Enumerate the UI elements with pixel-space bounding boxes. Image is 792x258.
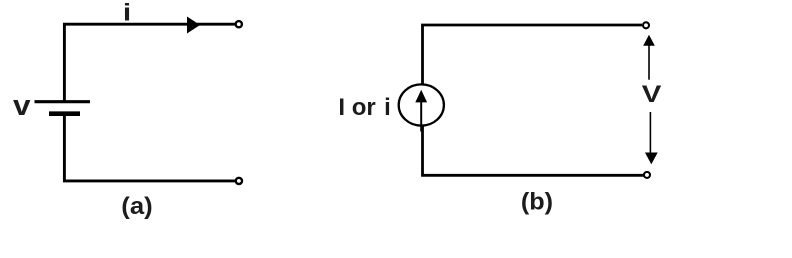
- wire: top wire of (b): [421, 24, 642, 27]
- wire: top wire of (a) from top-left corner to right terminal: [64, 24, 237, 101]
- voltage indicator: upper arrowhead pointing up at terminal: [643, 35, 655, 46]
- svg-text:(b): (b): [521, 189, 553, 216]
- current source U1: circle body: [399, 84, 444, 125]
- voltage indicator: lower arrowhead pointing down at terminal: [645, 153, 658, 165]
- wire: bottom wire of (b): [421, 174, 643, 177]
- svg-text:I or: I or: [338, 94, 375, 121]
- voltage source V1 (battery): long positive plate: [35, 100, 91, 103]
- svg-text:i: i: [384, 94, 391, 121]
- voltage indicator: upper stem: [648, 45, 650, 80]
- svg-text:v: v: [13, 90, 31, 122]
- svg-text:V: V: [642, 81, 662, 108]
- current arrow i on top wire: [187, 17, 200, 34]
- node: bottom-right open terminal of (a): [236, 178, 242, 184]
- wire: left wire of (b) top corner down to bottom corner: [421, 25, 424, 175]
- svg-text:i: i: [123, 0, 131, 27]
- current source U1: internal arrow stem: [420, 100, 422, 132]
- voltage indicator: lower stem: [649, 112, 651, 153]
- current source U1: internal arrowhead pointing up: [415, 90, 427, 103]
- node: bottom-right open terminal of (b): [644, 172, 650, 178]
- svg-text:(a): (a): [121, 193, 152, 220]
- node: top-right open terminal of (a): [236, 21, 242, 27]
- node: top-right open terminal of (b): [643, 22, 649, 28]
- wire: bottom-left wire of (a) from battery negative plate to bottom terminal: [64, 113, 237, 181]
- voltage source V1 (battery): short negative plate: [49, 111, 80, 116]
